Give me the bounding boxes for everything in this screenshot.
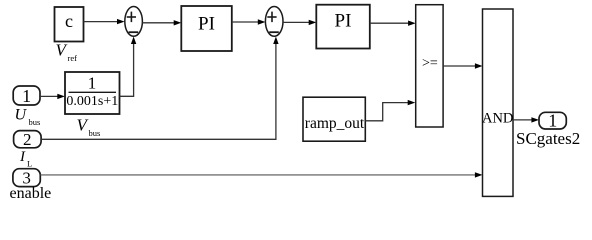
- svg-text:>=: >=: [422, 56, 438, 71]
- wire S2 to PI2: [283, 20, 316, 25]
- svg-text:PI: PI: [335, 11, 352, 32]
- PI controller block PI2: [316, 5, 370, 49]
- svg-text:PI: PI: [198, 14, 215, 35]
- svg-text:L: L: [27, 159, 32, 169]
- label SCgates2: [516, 129, 580, 148]
- wire PI2 to relational operator: [370, 21, 416, 26]
- wire ramp_out to relational operator: [365, 100, 415, 121]
- PI controller block PI1: [181, 6, 232, 51]
- svg-text:c: c: [65, 11, 73, 31]
- svg-text:ramp_out: ramp_out: [305, 115, 365, 132]
- wire port2 to sum S2 bottom: [41, 37, 279, 140]
- svg-text:bus: bus: [29, 117, 41, 127]
- svg-text:enable: enable: [10, 185, 52, 202]
- svg-text:ref: ref: [68, 53, 78, 63]
- svg-text:AND: AND: [482, 111, 513, 127]
- wire C to sum S1: [84, 19, 125, 24]
- svg-text:2: 2: [23, 130, 32, 149]
- svg-text:0.001s+1: 0.001s+1: [66, 94, 118, 109]
- wire AND to output port: [513, 117, 539, 122]
- wire relational operator to AND: [443, 63, 482, 68]
- label enable: [10, 185, 52, 202]
- wire port3 (enable) to AND: [40, 172, 482, 177]
- source block ramp_out: [303, 97, 365, 141]
- svg-text:1: 1: [22, 86, 31, 106]
- sum S1 (+ -): [125, 7, 143, 37]
- constant block C (value c): [55, 7, 84, 42]
- svg-text:1: 1: [88, 73, 97, 92]
- relational operator block >=: [416, 5, 443, 127]
- sum S2 (+ -): [265, 7, 283, 37]
- svg-text:1: 1: [548, 111, 557, 131]
- output port 1: [539, 111, 566, 131]
- svg-text:U: U: [15, 107, 28, 124]
- input port 1: [13, 86, 40, 106]
- logical operator block AND: [482, 9, 513, 196]
- svg-text:SCgates2: SCgates2: [516, 129, 580, 148]
- wire transfer function to sum S1 bottom: [120, 37, 137, 97]
- input port 2: [14, 130, 41, 149]
- label V_ref: [56, 41, 78, 64]
- svg-text:bus: bus: [89, 128, 101, 138]
- transfer function block 1/(0.001s+1): [65, 72, 120, 114]
- svg-text:I: I: [19, 149, 26, 165]
- wire S1 to PI1: [142, 20, 181, 25]
- label V_bus: [77, 116, 101, 139]
- wire PI1 to sum S2: [232, 19, 266, 24]
- label U_bus: [15, 107, 41, 128]
- label I_L: [19, 149, 32, 169]
- wire port1 to transfer function: [40, 94, 65, 99]
- input port 3: [13, 169, 40, 188]
